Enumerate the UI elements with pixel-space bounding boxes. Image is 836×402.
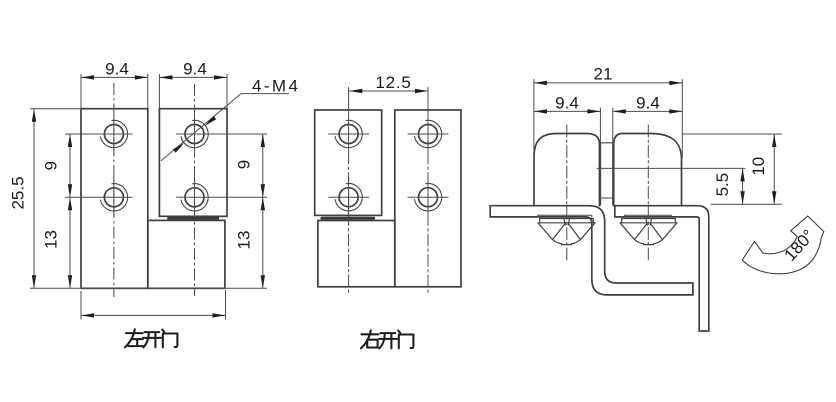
dimension 9.4 left knuckle <box>534 93 600 143</box>
label 4-M4 with leader <box>161 77 300 161</box>
svg-text:9: 9 <box>234 160 253 169</box>
left view: left leaf plate <box>81 109 148 289</box>
svg-text:21: 21 <box>594 65 613 84</box>
svg-text:12.5: 12.5 <box>375 73 411 92</box>
dimension 9 left <box>42 134 73 197</box>
dimension 9.4 first plate <box>81 59 148 108</box>
svg-text:9.4: 9.4 <box>636 93 660 112</box>
middle view: hole D2 <box>408 177 448 217</box>
middle view: centerline left plate <box>348 88 350 296</box>
left view bottom overall dimension <box>81 290 226 320</box>
side view: pin column <box>600 143 614 205</box>
label you-kai-men (right door) <box>361 330 413 348</box>
svg-text:10: 10 <box>749 157 768 176</box>
dimension 10 <box>749 134 776 204</box>
middle view: right leaf plate <box>395 110 461 287</box>
left view: right leaf plate <box>159 109 227 217</box>
svg-text:5.5: 5.5 <box>713 173 732 197</box>
left view: hole B2 <box>176 177 267 218</box>
middle view: hole C2 <box>329 177 369 217</box>
svg-text:9.4: 9.4 <box>183 59 207 78</box>
svg-text:4-M4: 4-M4 <box>252 77 300 96</box>
middle view: lower block <box>318 221 395 287</box>
dimension 21 <box>534 65 682 159</box>
svg-text:13: 13 <box>234 231 253 250</box>
label zuo-kai-men (left door) <box>125 329 177 347</box>
side view: leaf strip under right knuckle <box>624 215 671 217</box>
dimension 9 right <box>234 134 265 197</box>
dimension 25.5 <box>9 109 268 289</box>
side view: right knuckle <box>614 134 682 206</box>
svg-text:9.4: 9.4 <box>105 59 129 78</box>
svg-text:9.4: 9.4 <box>555 93 579 112</box>
left view: hole A2 <box>65 177 133 218</box>
dimension 13 right <box>234 197 265 288</box>
svg-text:13: 13 <box>42 230 61 249</box>
middle view: hole C1 <box>329 120 369 147</box>
side view: bracket top extension line <box>711 203 781 205</box>
left view: centerline right plate <box>194 84 196 296</box>
left view: centerline left plate <box>113 83 115 297</box>
dimension 9.4 right knuckle <box>613 93 683 143</box>
left view: flange strip under right leaf <box>167 217 219 220</box>
dimension 5.5 <box>713 168 745 204</box>
middle view: centerline right plate <box>427 88 429 296</box>
middle view: flange strip under left leaf <box>322 217 374 220</box>
middle view: hole D1 <box>408 120 448 147</box>
side view: leaf strip under left knuckle <box>538 215 592 217</box>
dimension 13 left <box>42 197 73 288</box>
side view: centerline left knuckle <box>566 125 568 263</box>
svg-text:25.5: 25.5 <box>9 176 28 209</box>
svg-text:9: 9 <box>42 161 61 170</box>
dimension 9.4 second plate <box>159 59 227 108</box>
left view: hole B1 <box>176 113 267 155</box>
side view: right screw <box>620 219 677 245</box>
side view: right bracket L-profile <box>615 206 709 331</box>
middle view: left leaf plate <box>315 110 382 215</box>
side view: left knuckle <box>534 134 600 206</box>
left view: hole A1 <box>65 114 133 155</box>
side view: knuckle top extension line <box>682 133 781 135</box>
side view: centerline right knuckle <box>647 125 649 263</box>
left view: lower block <box>148 220 225 288</box>
side view: left bracket Z-profile <box>490 206 693 295</box>
180 degree swing arrow <box>742 216 824 274</box>
dimension 12.5 <box>349 73 428 93</box>
side view: pin axis extension line <box>597 167 745 169</box>
side view: left screw <box>538 219 595 245</box>
